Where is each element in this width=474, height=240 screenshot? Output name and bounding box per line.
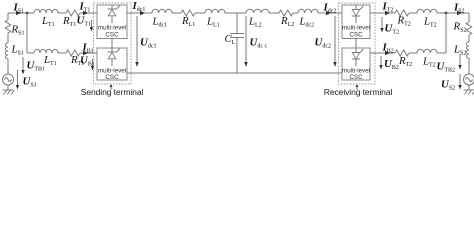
inductor LT1 top (34, 9, 58, 13)
label UTB1 (27, 60, 45, 73)
svg-text:Receiving terminal: Receiving terminal (324, 87, 393, 97)
wire converter link sending (111, 39, 113, 49)
wire branch vertical right (445, 13, 447, 53)
wire dc bottom (127, 72, 342, 74)
current arrow IT1 (83, 11, 88, 15)
current arrow IB2 (385, 51, 390, 55)
label sending terminal (81, 87, 144, 97)
label LT2 bottom (422, 56, 436, 69)
voltage arrow Udc1 (135, 16, 138, 67)
converter box sending bottom (97, 48, 127, 80)
inductor LL1 (205, 9, 225, 13)
wire converter link receiving (355, 39, 357, 49)
label Udc2 (315, 37, 331, 50)
voltage arrow UT2 (380, 17, 383, 33)
resistor RT1 bottom (66, 50, 80, 56)
inductor LS2 (466, 42, 469, 58)
wire top ac right (370, 12, 469, 14)
voltage arrow UB1 (91, 59, 94, 71)
wire bottom ac left (27, 52, 97, 54)
label LT2 top (423, 16, 437, 29)
current arrow IS2 (457, 11, 462, 15)
resistor RL2 (279, 10, 293, 16)
label multi-level CSC receiving bottom (342, 68, 370, 82)
voltage arrow Udc2 (333, 16, 336, 67)
voltage arrow UT1 (90, 20, 93, 32)
label RS2 (453, 21, 467, 34)
ac source US1 (3, 74, 14, 85)
label UT2 (385, 23, 399, 36)
svg-text:CSC: CSC (349, 74, 363, 81)
voltage arrow UTB2 (458, 54, 461, 70)
label RT2 bottom (398, 55, 412, 68)
label RS1 (11, 24, 25, 37)
wire branch vertical left (26, 13, 28, 53)
label multi-level CSC sending top (98, 25, 126, 39)
label Idc2 (323, 2, 337, 15)
converter box sending top U1 (97, 5, 127, 39)
label Idc1 (132, 0, 146, 13)
current arrow IB1 (83, 51, 88, 55)
inductor LT2 bottom (417, 49, 437, 53)
label Udcc (250, 37, 268, 50)
label US2 (441, 79, 455, 92)
voltage arrow UB2 (379, 56, 382, 70)
ground left (3, 85, 15, 95)
node junction right (445, 12, 448, 15)
svg-text:CSC: CSC (105, 32, 119, 39)
wire bottom ac right (370, 52, 446, 54)
resistor RS1 (5, 20, 11, 33)
label US1 (23, 76, 37, 89)
inductor LS1 (5, 43, 8, 59)
label LL1 (206, 16, 220, 29)
annotation arrow sending (109, 84, 112, 90)
label IT2 (382, 1, 394, 14)
current arrow Idc2 (326, 11, 331, 15)
label UT1 (77, 15, 91, 28)
inductor LT2 top (417, 9, 437, 13)
label multi-level CSC receiving top (342, 25, 370, 39)
label IS1 (13, 2, 25, 15)
svg-text:Sending terminal: Sending terminal (81, 87, 144, 97)
converter box receiving bottom (342, 48, 370, 80)
current arrow Idc1 (140, 11, 145, 15)
voltage arrow US1 (16, 70, 19, 90)
voltage arrow Udcc (244, 16, 247, 67)
label UB2 (384, 58, 399, 71)
label LL2 (248, 16, 262, 29)
converter box receiving top (342, 5, 370, 39)
inductor LL2 (246, 9, 269, 13)
thyristor sending bottom (108, 49, 121, 67)
wire top ac left (8, 12, 97, 14)
resistor RT2 bottom (395, 50, 409, 56)
label multi-level CSC sending bottom (98, 68, 126, 82)
label LS1 (11, 44, 24, 57)
label RT1 bottom (70, 54, 84, 67)
label IB2 (382, 42, 394, 55)
resistor RT2 top (395, 10, 409, 16)
capacitor CL (230, 13, 244, 73)
label Ldc2 (299, 16, 315, 29)
label IB1 (82, 42, 94, 55)
thyristor receiving top (352, 6, 364, 24)
resistor RT1 top (66, 10, 80, 16)
thyristor sending top (108, 6, 121, 24)
svg-text:multi-level: multi-level (98, 25, 126, 32)
dashed box sending terminal (94, 3, 132, 84)
label LS2 (453, 44, 466, 57)
current arrow IS1 (16, 11, 21, 15)
label RL1 (181, 15, 195, 28)
label UB1 (80, 55, 95, 68)
inductor Ldc1 (152, 9, 172, 13)
wire left rail top (7, 13, 9, 74)
inductor LT1 bottom (34, 49, 58, 53)
label RT1 top (62, 15, 76, 28)
wire dc top (127, 12, 342, 14)
current arrow IT2 (385, 11, 390, 15)
node junction left (26, 12, 29, 15)
svg-text:CSC: CSC (349, 32, 363, 39)
wire right rail (468, 13, 470, 74)
ac source US2 (464, 74, 474, 85)
label LT1 top (41, 15, 55, 28)
resistor RL1 (181, 10, 195, 16)
label Udc1 (140, 37, 156, 50)
label RT2 top (397, 15, 411, 28)
label LT1 bottom (43, 54, 57, 67)
thyristor receiving bottom (352, 49, 364, 67)
annotation arrow receiving (355, 84, 358, 90)
svg-text:multi-level: multi-level (342, 25, 370, 32)
svg-text:CSC: CSC (105, 74, 119, 81)
label Ldc1 (152, 16, 168, 29)
label RL2 (280, 15, 294, 28)
resistor RS2 (466, 22, 472, 35)
label IT1 (79, 1, 91, 14)
label CL (225, 33, 236, 46)
voltage arrow UTB1 (21, 57, 24, 75)
ground right (464, 85, 474, 95)
inductor Ldc2 (298, 9, 318, 13)
voltage arrow US2 (458, 74, 461, 90)
label UTB2 (437, 61, 455, 74)
dashed box receiving terminal (339, 3, 376, 84)
label receiving terminal (324, 87, 393, 97)
label IS2 (453, 2, 465, 15)
